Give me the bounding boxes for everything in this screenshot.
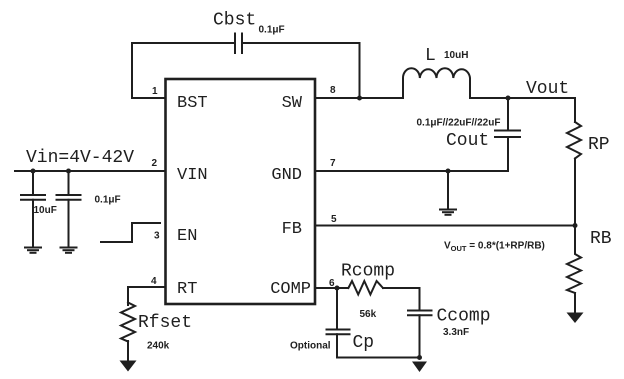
- label RB: [590, 229, 612, 249]
- svg-text:10uH: 10uH: [444, 50, 468, 61]
- resistor RB: [567, 226, 581, 294]
- pin number 4: [151, 276, 157, 287]
- wire Cp bottom to Ccomp bottom: [337, 334, 420, 357]
- svg-text:RB: RB: [590, 229, 612, 249]
- label Vout: [526, 79, 569, 99]
- op-amp U1: [166, 79, 316, 304]
- ground (earth) at GND: [440, 210, 456, 215]
- svg-text:2: 2: [151, 158, 157, 169]
- capacitor Cout: [495, 131, 520, 138]
- pin number 2: [151, 158, 157, 169]
- node Vout junction: [506, 96, 511, 101]
- wire Rcomp to Ccomp: [383, 288, 420, 310]
- formula Vout=0.8*(1+RP/RB): [444, 241, 545, 254]
- wire Cp top: [336, 288, 338, 329]
- pin 2 label VIN: [177, 166, 208, 185]
- ground (arrow) below RB: [567, 313, 584, 324]
- pin number 5: [331, 214, 337, 225]
- svg-text:Rcomp: Rcomp: [341, 262, 395, 282]
- pin number 1: [152, 86, 158, 97]
- svg-text:4: 4: [151, 276, 157, 287]
- svg-text:RT: RT: [177, 280, 197, 299]
- capacitor Ccomp: [408, 311, 432, 316]
- svg-text:Cout: Cout: [446, 131, 489, 151]
- node FB/RB junction: [573, 223, 578, 228]
- wire EN step waveform: [101, 223, 160, 242]
- svg-text:SW: SW: [282, 94, 303, 113]
- wire pin1 stub: [132, 97, 165, 99]
- wire Ccomp bottom: [419, 315, 421, 357]
- value 0.1uF//22uF//22uF: [417, 118, 501, 129]
- value 10uF: [34, 205, 57, 216]
- label Ccomp: [437, 307, 491, 327]
- wire Vout to RP: [574, 98, 576, 122]
- svg-text:EN: EN: [177, 227, 197, 246]
- svg-text:0.1μF: 0.1μF: [259, 25, 285, 36]
- svg-text:0.1μF//22uF//22uF: 0.1μF//22uF//22uF: [417, 118, 501, 129]
- svg-text:Cp: Cp: [353, 333, 375, 353]
- node SW/BST junction: [357, 96, 362, 101]
- value 3.3nF: [443, 327, 469, 338]
- wire Cin1 bottom: [32, 200, 34, 247]
- label Rcomp: [341, 262, 395, 282]
- label Rfset: [138, 313, 192, 333]
- resistor RP: [567, 122, 581, 159]
- wire VIN rail: [15, 170, 165, 172]
- label Cp: [353, 333, 375, 353]
- svg-text:Optional: Optional: [290, 341, 331, 352]
- value 0.1uF (Cbst): [259, 25, 285, 36]
- wire COMP stub: [315, 287, 348, 289]
- ground (earth) under C2: [61, 248, 77, 253]
- svg-text:3.3nF: 3.3nF: [443, 327, 469, 338]
- svg-text:240k: 240k: [147, 341, 170, 352]
- label L: [425, 46, 436, 66]
- svg-text:8: 8: [330, 85, 336, 96]
- svg-text:BST: BST: [177, 94, 208, 113]
- value 0.1uF (C2): [95, 195, 121, 206]
- node comp ground junction: [417, 355, 422, 360]
- wire Cin1 top: [32, 171, 34, 195]
- capacitor C2 0.1uF: [57, 195, 81, 200]
- value 56k: [360, 309, 377, 320]
- pin 6 label COMP: [270, 280, 311, 299]
- svg-text:Vout: Vout: [526, 79, 569, 99]
- ground (arrow) below Ccomp: [412, 362, 427, 373]
- svg-text:Ccomp: Ccomp: [437, 307, 491, 327]
- wire inductor to Vout: [470, 97, 575, 99]
- wire GND stub: [447, 171, 449, 209]
- resistor Rcomp: [348, 281, 383, 295]
- wire Cbst to SW node: [243, 43, 360, 98]
- wire FB: [315, 225, 575, 227]
- svg-text:0.1μF: 0.1μF: [95, 195, 121, 206]
- svg-text:1: 1: [152, 86, 158, 97]
- svg-text:Cbst: Cbst: [213, 11, 256, 31]
- label Vin=4V-42V: [26, 148, 134, 168]
- pin 1 label BST: [177, 94, 208, 113]
- pin 5 label FB: [282, 220, 302, 239]
- capacitor C1 10uF: [21, 195, 45, 200]
- pin 7 label GND: [271, 166, 302, 185]
- label Optional: [290, 341, 331, 352]
- pin 4 label RT: [177, 280, 197, 299]
- svg-text:FB: FB: [282, 220, 302, 239]
- svg-text:Rfset: Rfset: [138, 313, 192, 333]
- inductor L: [403, 68, 470, 98]
- wire Cin2 bottom: [68, 200, 70, 247]
- wire SW to inductor: [315, 97, 403, 99]
- wire RT stub: [128, 287, 165, 305]
- svg-text:VOUT = 0.8*(1+RP/RB): VOUT = 0.8*(1+RP/RB): [444, 241, 545, 254]
- wire Cout to GND rail: [507, 137, 509, 171]
- svg-text:Vin=4V-42V: Vin=4V-42V: [26, 148, 134, 168]
- value 240k: [147, 341, 170, 352]
- wire Vout to Cout: [507, 98, 509, 130]
- label Cbst: [213, 11, 256, 31]
- resistor Rfset: [121, 303, 135, 342]
- pin number 8: [330, 85, 336, 96]
- label RP: [588, 135, 610, 155]
- pin number 7: [330, 158, 336, 169]
- ground (arrow) below Rfset: [120, 361, 137, 372]
- svg-text:10uF: 10uF: [34, 205, 57, 216]
- svg-text:L: L: [425, 46, 436, 66]
- capacitor Cbst: [235, 34, 242, 54]
- capacitor Cp: [327, 330, 350, 335]
- svg-text:GND: GND: [271, 166, 302, 185]
- label Cout: [446, 131, 489, 151]
- pin 3 label EN: [177, 227, 197, 246]
- svg-text:VIN: VIN: [177, 166, 208, 185]
- node Cin2 junction: [66, 169, 71, 174]
- svg-text:5: 5: [331, 214, 337, 225]
- wire RB to ground: [574, 293, 576, 313]
- value 10uH: [444, 50, 468, 61]
- svg-text:COMP: COMP: [270, 280, 311, 299]
- svg-text:7: 7: [330, 158, 336, 169]
- wire GND rail: [315, 170, 508, 172]
- svg-text:RP: RP: [588, 135, 610, 155]
- pin number 3: [154, 231, 160, 242]
- node Cin1 junction: [31, 169, 36, 174]
- wire Cin2 top: [68, 171, 70, 195]
- svg-text:3: 3: [154, 231, 160, 242]
- node GND junction: [446, 169, 451, 174]
- node COMP junction: [335, 286, 340, 291]
- ground (earth) under C1: [25, 248, 41, 253]
- pin number 6: [329, 278, 335, 289]
- pin 8 label SW: [282, 94, 303, 113]
- wire BST loop top: [132, 43, 235, 98]
- wire RP to FB node: [574, 159, 576, 226]
- wire Rfset to ground: [127, 341, 129, 361]
- svg-text:56k: 56k: [360, 309, 377, 320]
